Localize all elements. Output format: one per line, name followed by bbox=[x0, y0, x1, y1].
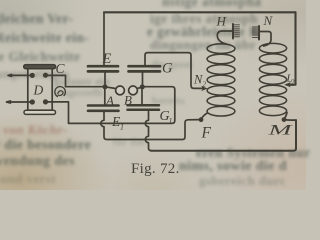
coil L1 loops bbox=[207, 44, 235, 116]
arrow left lead upper bbox=[8, 74, 12, 76]
svg-text:H: H bbox=[216, 14, 227, 29]
circuit schematic bbox=[0, 0, 306, 190]
svg-text:D: D bbox=[33, 83, 44, 98]
svg-text:F: F bbox=[201, 125, 212, 142]
wire G cap bottom to node bbox=[142, 73, 144, 87]
arrow left lead lower bbox=[7, 101, 11, 103]
discharger box bottom cap bbox=[24, 110, 56, 114]
wire top outer bbox=[104, 11, 296, 13]
svg-text:B: B bbox=[124, 93, 132, 108]
node F dot bbox=[199, 117, 204, 122]
svg-text:2: 2 bbox=[291, 79, 295, 87]
wire node down to G1 top plate bbox=[141, 87, 143, 105]
wire node to lower cap bbox=[104, 87, 106, 105]
node M dot bbox=[282, 117, 287, 122]
junction node right of spark gap bbox=[140, 84, 145, 89]
wire G cap top to left-coil tap vertical bbox=[145, 53, 203, 89]
wire spark stub left bbox=[105, 87, 117, 89]
wire left vertical to capacitor E bbox=[103, 12, 105, 65]
brush contact right coil bbox=[258, 26, 260, 40]
svg-text:G: G bbox=[162, 61, 173, 77]
terminal dot TL bbox=[30, 73, 35, 78]
svg-text:2: 2 bbox=[203, 81, 207, 89]
wire spark stub right bbox=[137, 87, 143, 89]
coil L1 bottom exit bbox=[201, 113, 207, 119]
svg-text:C: C bbox=[56, 61, 66, 76]
capacitor Z1 plates (lower left) bbox=[88, 106, 119, 111]
discharger box body bbox=[28, 69, 52, 111]
arrow tap into right coil bbox=[284, 82, 291, 87]
svg-text:1: 1 bbox=[169, 117, 173, 126]
arrow tap into left coil bbox=[201, 86, 207, 91]
coil L1 top entry from brush bbox=[217, 31, 233, 44]
coil L2 bottom exit bbox=[284, 113, 287, 120]
node arrow tap right coil bbox=[287, 84, 294, 86]
symbol D2 spiral at box output bbox=[55, 87, 66, 97]
wire M to right rail bbox=[284, 120, 296, 122]
svg-text:1: 1 bbox=[120, 123, 124, 132]
wire right vertical upper segment bbox=[288, 12, 296, 84]
svg-text:A: A bbox=[105, 93, 114, 108]
wire E cap to node bbox=[104, 73, 106, 87]
spark ball B bbox=[129, 86, 138, 95]
capacitor G1 plates bbox=[128, 105, 160, 110]
svg-text:E: E bbox=[102, 51, 112, 67]
wire G1 drop with hopovers bbox=[145, 112, 152, 151]
junction node left of spark gap bbox=[103, 84, 108, 89]
capacitor E plates bbox=[88, 66, 118, 71]
wire lower-left drop with hopover to H2 bbox=[101, 112, 199, 140]
page text fragments (blurred) bbox=[0, 11, 73, 27]
brush contact left coil bbox=[232, 24, 234, 39]
terminal dot BR bbox=[43, 99, 48, 104]
wire left lead lower bbox=[8, 101, 33, 103]
svg-text:N: N bbox=[193, 73, 203, 87]
terminal dot BL bbox=[30, 99, 35, 104]
svg-text:N: N bbox=[263, 13, 274, 28]
wire H1 loop: gap junction to box bbox=[46, 87, 175, 124]
spark ball A bbox=[116, 86, 125, 95]
svg-text:M: M bbox=[267, 123, 294, 139]
wire left lead upper bbox=[9, 74, 32, 76]
wire box to mid rail bbox=[46, 75, 106, 86]
discharger box top cap bbox=[24, 65, 56, 69]
coil L2 top entry from brush bbox=[259, 32, 271, 47]
wire right vertical lower segment bbox=[151, 120, 296, 151]
caption Fig. 72. bbox=[131, 161, 191, 178]
coil L2 loops bbox=[259, 43, 286, 115]
terminal dot TR bbox=[43, 73, 48, 78]
capacitor G plates bbox=[129, 66, 161, 71]
